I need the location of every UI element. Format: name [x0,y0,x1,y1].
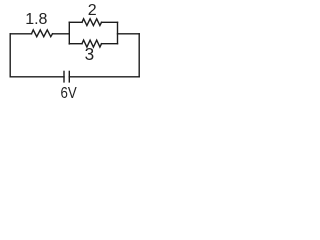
svg-text:6V: 6V [61,85,78,102]
svg-text:3: 3 [85,44,95,64]
svg-text:2: 2 [88,2,97,19]
svg-text:1.8: 1.8 [25,11,47,28]
